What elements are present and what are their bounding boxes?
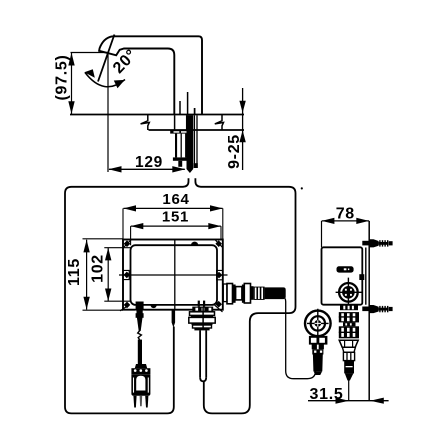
routing outline right branch (195, 178, 295, 413)
valve display slot (337, 266, 354, 272)
valve side clip bump (359, 274, 364, 280)
svg-text:(97.5): (97.5) (54, 55, 71, 101)
counter break mark right (215, 115, 224, 131)
inlet bell band white 1 (190, 312, 215, 316)
dim 129 arrow left (108, 166, 121, 172)
faucet outer profile (99, 36, 202, 114)
inner body vertical seam (174, 240, 176, 310)
dim (97.5) arrow down (68, 101, 74, 114)
supply hose end cap (194, 163, 198, 168)
inlet tube rounded end (200, 377, 206, 381)
shank mounting flange under counter (170, 130, 191, 133)
dim 164 line (124, 207, 223, 209)
dim 151 extension lines (131, 226, 221, 245)
LED dome on box top (191, 242, 198, 246)
dim 9-25 lower line and arrow (239, 130, 245, 142)
valve handle inner circle (342, 286, 355, 299)
mounting screw top (362, 239, 392, 247)
outlet fitting collar on box right (223, 284, 227, 302)
dim 115 extension lines (83, 239, 124, 310)
check valve center dot cross (315, 320, 321, 326)
inlet bell band white 2 (189, 317, 215, 323)
inlet nut black (192, 307, 213, 312)
check valve adapter (312, 344, 317, 349)
outlet fitting neck (251, 286, 254, 300)
control box mounting frame (123, 240, 223, 310)
valve handle quadrant dots (345, 289, 352, 296)
dim (97.5) line (71, 53, 73, 115)
power cable upper taper (137, 318, 143, 332)
stray mark near outline corner (301, 187, 303, 189)
check valve hose (313, 355, 323, 372)
frame corner chamfer marks (120, 240, 223, 312)
svg-text:102: 102 (90, 254, 107, 283)
inlet bell band black 2 (192, 323, 213, 325)
outlet fitting black band 1 (233, 285, 236, 303)
valve fitting neck (343, 322, 356, 326)
water inlet pipe stubs above frame bottom (198, 301, 200, 307)
valve hex nut (339, 340, 358, 347)
dim 102 line (107, 248, 109, 302)
svg-text:78: 78 (336, 205, 355, 222)
inlet center pipe line (202, 307, 204, 330)
dim 115 line (86, 240, 88, 310)
dim 78 line (322, 220, 369, 222)
power cable lower run (138, 340, 142, 365)
plug strain relief cap (135, 364, 147, 368)
svg-text:31.5: 31.5 (310, 386, 344, 403)
svg-text:115: 115 (66, 258, 83, 286)
inlet tube walls (200, 330, 206, 377)
dim (97.5) arrow up (68, 53, 74, 66)
dim 31.5 arrows (336, 398, 350, 404)
check valve crosshair (307, 309, 329, 339)
svg-text:20°: 20° (110, 46, 140, 77)
plug prongs (133, 396, 136, 408)
dim 9-25 upper line and arrow (242, 88, 244, 170)
vertical reference line at spout tip (107, 53, 109, 173)
faucet internal shank lines above deck (180, 92, 195, 114)
drain bump under box (150, 305, 156, 308)
inner body horizontal seam (119, 274, 228, 276)
outlet fitting hex panel 1 (227, 284, 233, 304)
outlet solid hose (265, 287, 286, 299)
svg-text:129: 129 (135, 154, 163, 171)
valve hex sub section (342, 347, 355, 352)
dim 129 arrow right (172, 166, 185, 172)
valve bottom knurled nut (340, 305, 358, 310)
valve handle outer circle (339, 283, 358, 302)
power cable connector at box bottom (136, 302, 144, 318)
inlet bell band black 3 (194, 328, 209, 330)
stop valve body (322, 247, 363, 304)
outlet fitting hex panel 3 (244, 284, 250, 304)
counter break mark left (141, 115, 150, 131)
outlet fitting hex panel 2 (236, 287, 242, 300)
plug body (131, 374, 150, 396)
check valve circle inner (311, 316, 325, 330)
frame corner screw diamonds (124, 240, 223, 308)
valve outlet tube (343, 352, 354, 360)
check valve circle outer (305, 311, 331, 337)
plug crown collar (131, 368, 150, 374)
svg-text:164: 164 (162, 191, 189, 208)
check valve center dot (314, 320, 321, 327)
svg-text:9-25: 9-25 (226, 134, 243, 169)
outlet connecting line to check valve hose (285, 299, 316, 379)
valve fitting block 1 (339, 312, 359, 322)
valve fitting block 2 (339, 326, 359, 338)
sensor cable stub at box bottom (172, 310, 176, 328)
supply hose lines (194, 115, 197, 167)
shank lines through counter (175, 115, 187, 130)
dim 164 extension lines (123, 208, 223, 239)
supply tube black (187, 115, 194, 173)
valve hose line to dim (348, 381, 350, 401)
valve hose dark tip (344, 361, 354, 374)
dim 102 extension lines (104, 248, 130, 302)
control box inner body (131, 245, 218, 305)
arc arrowhead right (114, 80, 125, 88)
shank end cap (173, 157, 189, 160)
dim 151 line (131, 225, 221, 227)
valve handle crosshair (336, 278, 362, 307)
check valve section with dots (312, 349, 323, 354)
outlet fitting black band 2 (242, 285, 244, 303)
inlet bell band black 1 (191, 315, 213, 317)
wall line / dim 78 right extension (368, 221, 370, 401)
svg-text:151: 151 (162, 209, 189, 226)
outlet corrugated hose (254, 287, 265, 300)
arc arrowhead left (84, 69, 95, 78)
shank threaded tail below cap (178, 161, 182, 167)
frame mid tab outlines (123, 270, 223, 279)
check valve nut (309, 336, 328, 345)
mounting screw bottom (362, 305, 392, 313)
threaded shank tube (175, 134, 177, 158)
dim 129 line (109, 168, 185, 170)
extension line to (97.5) dim (71, 52, 108, 54)
inlet bell band white 3 (193, 325, 212, 328)
faucet spout slant face 20deg line (98, 35, 114, 82)
power cable squiggle (138, 331, 142, 340)
routing outline left branch (65, 178, 189, 413)
counter bottom surface (149, 129, 245, 131)
dim 78 left extension / valve left edge line (321, 221, 323, 247)
dim 31.5 line (308, 400, 389, 402)
counter top surface (70, 114, 244, 116)
valve body outer right line (365, 248, 367, 305)
angle arc (85, 73, 125, 87)
